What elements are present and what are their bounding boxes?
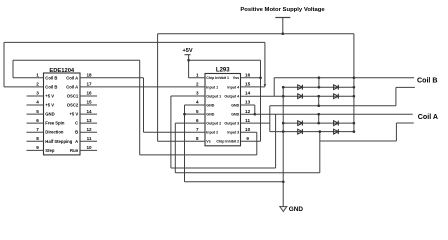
svg-text:2: 2 bbox=[36, 82, 39, 87]
svg-text:GND: GND bbox=[206, 112, 214, 116]
svg-text:18: 18 bbox=[86, 73, 92, 78]
svg-text:5: 5 bbox=[36, 109, 39, 114]
svg-text:3: 3 bbox=[196, 91, 199, 96]
svg-text:12: 12 bbox=[86, 127, 92, 132]
svg-text:2: 2 bbox=[196, 82, 199, 87]
svg-text:6: 6 bbox=[36, 118, 39, 123]
svg-text:GND: GND bbox=[45, 112, 54, 117]
svg-text:A: A bbox=[75, 139, 78, 144]
svg-text:Coil A: Coil A bbox=[66, 84, 78, 89]
svg-text:8: 8 bbox=[36, 136, 39, 141]
svg-text:Coil A: Coil A bbox=[66, 75, 78, 80]
svg-text:+5 V: +5 V bbox=[45, 93, 54, 98]
svg-text:Direction: Direction bbox=[45, 130, 64, 135]
svg-text:Chip Inhibit 1: Chip Inhibit 1 bbox=[206, 76, 229, 80]
svg-text:14: 14 bbox=[86, 109, 92, 114]
svg-text:4: 4 bbox=[36, 100, 39, 105]
svg-text:Output 2: Output 2 bbox=[206, 122, 221, 126]
svg-text:Coil A: Coil A bbox=[418, 113, 438, 121]
svg-text:1: 1 bbox=[196, 73, 199, 78]
svg-text:Input 4: Input 4 bbox=[227, 85, 239, 89]
svg-text:Input 1: Input 1 bbox=[206, 85, 218, 89]
svg-text:OSC1: OSC1 bbox=[67, 93, 79, 98]
svg-text:+5V: +5V bbox=[182, 48, 192, 54]
svg-text:Chip Inhibit 2: Chip Inhibit 2 bbox=[216, 140, 239, 144]
svg-text:6: 6 bbox=[196, 118, 199, 123]
svg-text:9: 9 bbox=[36, 145, 39, 150]
svg-text:B: B bbox=[75, 130, 78, 135]
svg-text:Coil B: Coil B bbox=[417, 76, 438, 84]
svg-text:Vss: Vss bbox=[233, 76, 239, 80]
svg-text:1: 1 bbox=[36, 73, 39, 78]
svg-text:GND: GND bbox=[206, 103, 214, 107]
svg-text:GND: GND bbox=[289, 206, 304, 213]
svg-text:Coil B: Coil B bbox=[45, 75, 57, 80]
svg-text:Vs: Vs bbox=[206, 140, 210, 144]
svg-text:17: 17 bbox=[86, 82, 92, 87]
svg-text:EDE1204: EDE1204 bbox=[49, 68, 75, 74]
svg-text:7: 7 bbox=[196, 127, 199, 132]
svg-text:GND: GND bbox=[231, 112, 239, 116]
svg-text:C: C bbox=[75, 121, 78, 126]
svg-text:3: 3 bbox=[36, 91, 39, 96]
svg-text:12: 12 bbox=[245, 109, 251, 114]
svg-text:Input 3: Input 3 bbox=[227, 131, 239, 135]
svg-text:Step: Step bbox=[45, 148, 55, 153]
svg-text:7: 7 bbox=[36, 127, 39, 132]
svg-text:11: 11 bbox=[245, 118, 250, 123]
svg-text:15: 15 bbox=[245, 82, 251, 87]
svg-text:11: 11 bbox=[87, 136, 92, 141]
svg-text:13: 13 bbox=[86, 118, 92, 123]
svg-text:Output 3: Output 3 bbox=[224, 122, 239, 126]
svg-text:Positive Motor Supply Voltage: Positive Motor Supply Voltage bbox=[240, 7, 325, 13]
svg-text:14: 14 bbox=[245, 91, 251, 96]
svg-text:+5 V: +5 V bbox=[69, 112, 78, 117]
svg-text:16: 16 bbox=[245, 73, 251, 78]
svg-text:16: 16 bbox=[86, 91, 92, 96]
svg-text:10: 10 bbox=[245, 127, 251, 132]
svg-text:13: 13 bbox=[245, 100, 251, 105]
svg-text:L293: L293 bbox=[216, 67, 230, 73]
svg-text:4: 4 bbox=[196, 100, 199, 105]
svg-text:Half Stepping: Half Stepping bbox=[45, 139, 72, 144]
svg-text:9: 9 bbox=[246, 136, 249, 141]
svg-text:Free Spin: Free Spin bbox=[45, 121, 65, 126]
svg-text:+5 V: +5 V bbox=[45, 103, 54, 108]
svg-text:OSC2: OSC2 bbox=[67, 103, 79, 108]
svg-text:10: 10 bbox=[86, 145, 92, 150]
svg-text:Output 4: Output 4 bbox=[224, 94, 239, 98]
svg-text:Input 2: Input 2 bbox=[206, 131, 218, 135]
svg-text:Output 1: Output 1 bbox=[206, 94, 221, 98]
svg-text:Run: Run bbox=[70, 148, 79, 153]
svg-text:8: 8 bbox=[196, 136, 199, 141]
svg-text:GND: GND bbox=[231, 103, 239, 107]
svg-text:15: 15 bbox=[86, 100, 92, 105]
svg-text:Coil B: Coil B bbox=[45, 84, 57, 89]
svg-text:5: 5 bbox=[196, 109, 199, 114]
